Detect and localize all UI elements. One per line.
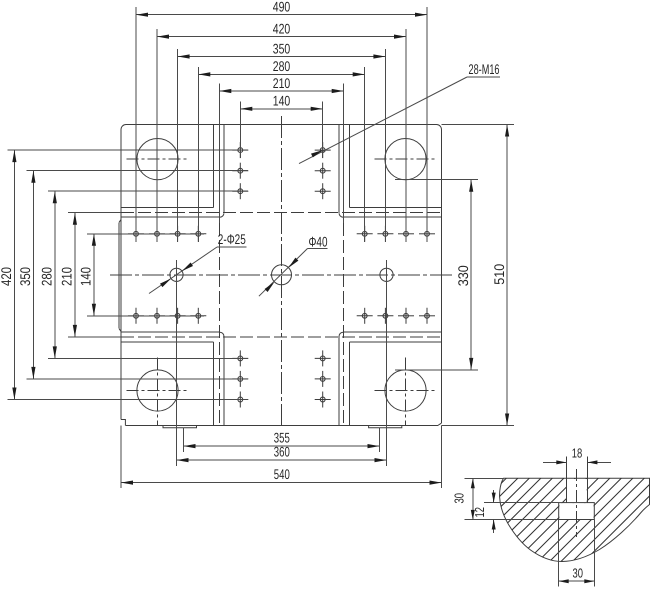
- svg-text:18: 18: [572, 446, 583, 461]
- M16 tapped hole 16: [419, 308, 435, 324]
- section bore right wall: [586, 457, 588, 503]
- corner boss bottom-right: [349, 342, 441, 426]
- svg-text:30: 30: [573, 565, 584, 580]
- vertical centerline: [281, 116, 283, 426]
- M16 tapped hole 21: [315, 163, 331, 179]
- corner boss top-left: [121, 125, 214, 208]
- M16 tapped hole 2: [149, 226, 165, 242]
- svg-text:420: 420: [273, 20, 291, 36]
- section detail outline: [500, 478, 650, 561]
- tie-bar hole bottom-right horizontal centerline: [375, 390, 437, 392]
- plate outline: [121, 125, 442, 426]
- M16 tapped hole 19: [232, 183, 248, 199]
- bottom edge tab right: [369, 426, 402, 428]
- M16 tapped hole 6: [377, 226, 393, 242]
- corner boss bottom-left: [121, 342, 214, 426]
- M16 tapped hole 23: [232, 350, 248, 366]
- M16 tapped hole 13: [357, 308, 373, 324]
- dashed reference line vertical left: [218, 223, 220, 426]
- M16 tapped hole 24: [232, 371, 248, 387]
- dimension 30 detail left: [451, 478, 474, 520]
- label 28-M16: [299, 61, 500, 164]
- tie-bar hole top-right: [385, 139, 426, 180]
- M16 tapped hole 4: [190, 226, 206, 242]
- center cross boss top-left edge: [121, 125, 224, 218]
- M16 tapped hole 14: [377, 308, 393, 324]
- M16 tapped hole 20: [315, 142, 331, 158]
- center cross boss bottom-left edge: [121, 332, 224, 425]
- svg-text:510: 510: [491, 264, 507, 285]
- left edge boss ear: [119, 220, 121, 332]
- M16 tapped hole 3: [170, 226, 186, 242]
- dimension 140 left: [78, 234, 204, 316]
- center cross boss top-right edge: [339, 125, 441, 218]
- tie-bar hole bottom-left vertical centerline: [157, 358, 159, 426]
- tie-bar hole bottom-right vertical centerline: [405, 358, 407, 426]
- dimension 12 detail: [472, 490, 496, 533]
- center cross boss bottom-right edge: [339, 332, 441, 425]
- M16 tapped hole 22: [315, 183, 331, 199]
- svg-text:540: 540: [274, 466, 290, 482]
- dimension 355 bottom: [184, 428, 380, 452]
- dimension 280 top: [198, 58, 364, 242]
- svg-text:30: 30: [451, 493, 466, 504]
- svg-text:Φ40: Φ40: [309, 234, 328, 250]
- bottom edge tab left: [163, 426, 197, 428]
- svg-text:140: 140: [273, 93, 291, 109]
- dimension 18 detail: [543, 446, 611, 465]
- svg-text:140: 140: [78, 267, 94, 286]
- dimension 540 bottom: [121, 426, 442, 489]
- M16 tapped hole 26: [315, 350, 331, 366]
- M16 tapped hole 17: [232, 142, 248, 158]
- dimension 280 left: [39, 191, 248, 358]
- M16 tapped hole 9: [128, 308, 144, 324]
- tie-bar hole top-right horizontal centerline: [375, 158, 437, 160]
- dimension 510 right: [442, 125, 515, 426]
- M16 tapped hole 5: [357, 226, 373, 242]
- dimension 210 top: [219, 75, 343, 223]
- tie-bar hole top-left: [137, 139, 178, 180]
- dimension 420 left: [0, 150, 248, 399]
- M16 tapped hole 28: [315, 392, 331, 408]
- tie-bar hole bottom-left horizontal centerline: [127, 390, 189, 392]
- M16 tapped hole 25: [232, 392, 248, 408]
- svg-text:350: 350: [17, 267, 33, 286]
- tie-bar hole bottom-right: [385, 370, 426, 411]
- dimension 360 bottom: [177, 260, 387, 466]
- label phi40: [259, 234, 328, 297]
- hole 2-phi25 left: [170, 268, 183, 281]
- corner boss top-right: [349, 125, 441, 208]
- M16 tapped hole 27: [315, 371, 331, 387]
- M16 tapped hole 1: [128, 226, 144, 242]
- M16 tapped hole 15: [398, 308, 414, 324]
- svg-text:280: 280: [39, 267, 55, 286]
- dimension 330 right: [395, 180, 478, 370]
- dashed reference line horizontal top: [121, 212, 442, 214]
- dimension 490 top: [136, 0, 427, 242]
- label 2-phi25: [149, 231, 247, 293]
- dimension 30 detail bottom: [559, 520, 595, 587]
- svg-text:210: 210: [59, 267, 75, 286]
- section bore left wall: [565, 457, 567, 503]
- M16 tapped hole 8: [419, 226, 435, 242]
- dimension 420 top: [157, 20, 406, 242]
- M16 tapped hole 11: [170, 308, 186, 324]
- section hole bore white-out: [567, 479, 587, 503]
- svg-text:490: 490: [273, 0, 291, 15]
- svg-text:210: 210: [273, 75, 291, 91]
- section counterbore top extension: [484, 502, 559, 504]
- M16 tapped hole 7: [398, 226, 414, 242]
- hole 2-phi25 right: [380, 268, 393, 281]
- svg-text:330: 330: [455, 265, 471, 286]
- tie-bar hole bottom-left: [137, 370, 178, 411]
- dimension 140 top: [240, 93, 322, 158]
- svg-text:350: 350: [273, 40, 291, 56]
- M16 tapped hole 18: [232, 163, 248, 179]
- horizontal centerline: [110, 274, 453, 276]
- svg-text:420: 420: [0, 267, 14, 286]
- M16 tapped hole 10: [149, 308, 165, 324]
- svg-text:28-M16: 28-M16: [469, 61, 500, 77]
- tie-bar hole top-left horizontal centerline: [127, 158, 189, 160]
- section top edge extension: [465, 477, 504, 479]
- dashed reference line vertical right: [343, 223, 345, 426]
- hole phi40 center: [272, 265, 292, 285]
- svg-text:2-Φ25: 2-Φ25: [218, 231, 246, 247]
- section counterbore white-out: [559, 503, 593, 519]
- svg-text:360: 360: [274, 443, 290, 459]
- svg-text:12: 12: [472, 507, 487, 518]
- dimension 350 top: [178, 40, 386, 242]
- dimension 210 left: [59, 213, 121, 337]
- section counterbore bottom extension: [465, 519, 559, 521]
- dimension 350 left: [17, 171, 248, 379]
- svg-text:280: 280: [273, 58, 291, 74]
- M16 tapped hole 12: [190, 308, 206, 324]
- section centerline: [576, 469, 578, 537]
- dashed reference line horizontal bottom: [121, 336, 442, 338]
- section counterbore outline: [559, 503, 595, 520]
